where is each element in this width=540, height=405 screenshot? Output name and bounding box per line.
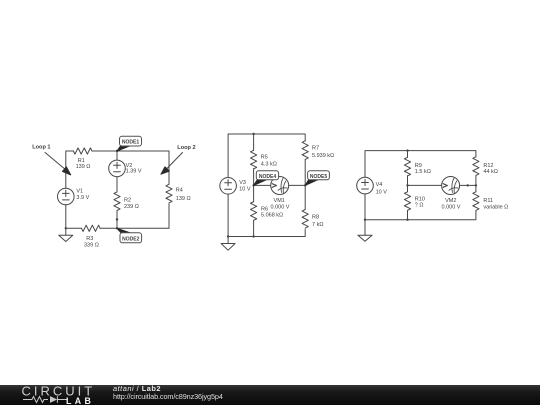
svg-text:3.9 V: 3.9 V	[76, 195, 89, 201]
junction dot top R5	[252, 133, 254, 135]
svg-text:0.000 V: 0.000 V	[271, 205, 290, 211]
svg-text:Loop 1: Loop 1	[32, 145, 50, 151]
footer title	[113, 384, 161, 393]
svg-text:5.939 kΩ: 5.939 kΩ	[312, 153, 334, 159]
svg-text:NODE4: NODE4	[259, 174, 276, 180]
wire: left top corner to R1	[66, 151, 74, 188]
label R5 value	[261, 155, 277, 168]
wire: R5 to NODE4 junction	[253, 169, 255, 186]
junction dot top R9	[406, 149, 408, 151]
wire: R6 to bottom rail	[253, 221, 255, 237]
label VM2 value	[442, 198, 461, 211]
svg-text:10 V: 10 V	[376, 189, 388, 195]
label R1 value	[76, 158, 91, 170]
resistor R2	[114, 192, 120, 211]
svg-text:1.5 kΩ: 1.5 kΩ	[415, 169, 431, 175]
label R9 value	[415, 163, 431, 175]
junction dot NODE2	[116, 227, 118, 229]
svg-text:339 Ω: 339 Ω	[84, 243, 99, 249]
annotation arrow Loop 1	[45, 153, 71, 175]
wire: V4 down to bottom rail	[364, 194, 366, 220]
label R8 value	[312, 214, 323, 227]
svg-text:R8: R8	[312, 214, 319, 220]
wire joint dot	[467, 184, 469, 186]
wire: V3 down to bottom rail	[227, 194, 229, 236]
svg-text:139 Ω: 139 Ω	[176, 196, 191, 202]
wire: R6 top lead	[253, 185, 255, 201]
wire: R5 top lead	[253, 134, 255, 150]
wire: V2 to R2	[116, 177, 118, 192]
resistor R5	[251, 150, 257, 169]
svg-text:NODE1: NODE1	[122, 140, 139, 146]
wire: circuit2 top rail	[228, 134, 305, 178]
logo wire-resistor-diode glyph	[22, 395, 68, 405]
footer url	[113, 392, 223, 401]
label V4 value	[376, 182, 388, 195]
logo CIRCUIT	[22, 384, 96, 398]
voltmeter VM2	[442, 177, 460, 195]
svg-text:R3: R3	[86, 236, 93, 242]
wire: circuit3 top rail	[365, 151, 476, 178]
junction dot ground (circuit 3)	[364, 219, 366, 221]
wire: right branch top corner down to R4	[168, 151, 170, 184]
svg-text:variable Ω: variable Ω	[483, 204, 508, 210]
svg-text:0.000 V: 0.000 V	[442, 205, 461, 211]
ground (circuit 1)	[59, 228, 73, 241]
label R6 value	[261, 207, 283, 219]
svg-text:VM1: VM1	[274, 198, 285, 204]
label R11 value	[483, 198, 508, 210]
annotation arrow Loop 2	[161, 153, 183, 175]
svg-text:R9: R9	[415, 163, 422, 169]
resistor R7	[302, 141, 308, 160]
junction dot NODE5	[304, 184, 306, 186]
svg-text:10 V: 10 V	[239, 186, 251, 192]
wire: VM1 to NODE5 junction	[289, 184, 306, 186]
label R4 value	[176, 188, 191, 202]
wire: bottom-left to R3	[66, 227, 82, 229]
label V3 value	[239, 180, 251, 192]
svg-text:7 kΩ: 7 kΩ	[312, 222, 323, 228]
svg-text:R11: R11	[483, 198, 493, 204]
wire: R9 top lead	[407, 151, 409, 158]
wire: R2 to NODE2 junction with joint dot	[116, 211, 118, 229]
voltmeter VM1	[271, 177, 289, 195]
voltage source V4	[357, 177, 374, 194]
wire: R10 top lead	[407, 185, 409, 191]
svg-text:44 kΩ: 44 kΩ	[483, 169, 498, 175]
resistor R11	[473, 192, 479, 211]
label R10 value	[415, 196, 425, 208]
footer bar	[0, 385, 540, 405]
junction dot right rail mid	[475, 184, 477, 186]
resistor R6	[251, 202, 257, 221]
resistor R12	[473, 157, 479, 176]
ground (circuit 3)	[358, 220, 372, 242]
resistor R4	[166, 184, 172, 203]
svg-text:VM2: VM2	[445, 198, 456, 204]
annotation Loop 2	[177, 145, 195, 151]
svg-text:239 Ω: 239 Ω	[124, 204, 139, 210]
wire: V1 to bottom-left junction	[65, 205, 67, 229]
wire: R4 to bottom-right corner	[168, 204, 170, 229]
label R7 value	[312, 146, 334, 159]
label V2 value	[126, 163, 142, 174]
node NODE5 flag	[305, 171, 329, 186]
node NODE4 flag	[254, 171, 279, 186]
label R2 value	[124, 198, 139, 210]
voltage source V1	[58, 188, 75, 205]
node NODE1 flag	[117, 136, 142, 151]
wire joint dot	[116, 218, 118, 220]
junction dot bottom-left	[65, 227, 67, 229]
svg-text:R1: R1	[78, 158, 85, 164]
resistor R8	[302, 210, 308, 229]
svg-text:4.3 kΩ: 4.3 kΩ	[261, 162, 277, 168]
svg-text:NODE2: NODE2	[122, 236, 139, 242]
svg-text:? Ω: ? Ω	[415, 202, 424, 208]
wire: R10 to bottom rail	[407, 210, 409, 220]
ground (circuit 2)	[221, 237, 235, 251]
voltage source V2	[109, 151, 126, 177]
wire: R1 to NODE1 junction to top-right corner	[92, 150, 169, 152]
label V1 value	[76, 189, 89, 201]
svg-text:V4: V4	[376, 182, 383, 188]
wire: R8 to bottom rail and rail itself	[228, 229, 305, 236]
junction dot R10 bottom	[406, 219, 408, 221]
svg-text:R4: R4	[176, 188, 183, 194]
svg-text:NODE5: NODE5	[310, 174, 327, 180]
wire: R3 to NODE2 junction to bottom-right corner	[100, 227, 169, 229]
wire: mid junction to VM2	[408, 184, 442, 186]
wire: R12 to mid	[475, 176, 477, 192]
resistor R1	[73, 148, 92, 154]
node junction NODE1 dot	[116, 150, 118, 152]
wire: NODE4 junction to VM1	[254, 184, 271, 186]
svg-text:V1: V1	[76, 189, 83, 195]
resistor R3	[82, 225, 101, 231]
wire: R11 to bottom rail and rail itself	[365, 211, 476, 220]
svg-text:5.068 kΩ: 5.068 kΩ	[261, 213, 283, 219]
junction dot NODE4	[252, 184, 254, 186]
node NODE2 flag	[117, 228, 142, 243]
label R12 value	[483, 163, 498, 175]
resistor R9	[404, 157, 410, 176]
svg-text:Loop 2: Loop 2	[177, 145, 195, 151]
svg-text:V3: V3	[239, 180, 246, 186]
svg-text:139 Ω: 139 Ω	[76, 164, 91, 170]
label VM1 value	[271, 198, 290, 211]
svg-text:R2: R2	[124, 198, 131, 204]
label R3 value	[84, 236, 99, 248]
logo LAB	[66, 396, 94, 405]
wire: VM2 to right rail	[460, 184, 476, 186]
junction dot ground (circuit 2)	[227, 235, 229, 237]
wire: R9 to mid junction	[407, 176, 409, 186]
annotation Loop 1	[32, 145, 50, 151]
voltage source V3	[220, 178, 237, 195]
svg-text:R6: R6	[261, 207, 268, 213]
junction dot mid R9/R10	[406, 184, 408, 186]
resistor R10	[404, 192, 410, 211]
wire: R7 to NODE5 junction	[304, 160, 306, 210]
svg-text:R5: R5	[261, 155, 268, 161]
svg-text:1.39 V: 1.39 V	[126, 169, 142, 175]
junction dot R6 bottom	[252, 235, 254, 237]
svg-text:R7: R7	[312, 146, 319, 152]
